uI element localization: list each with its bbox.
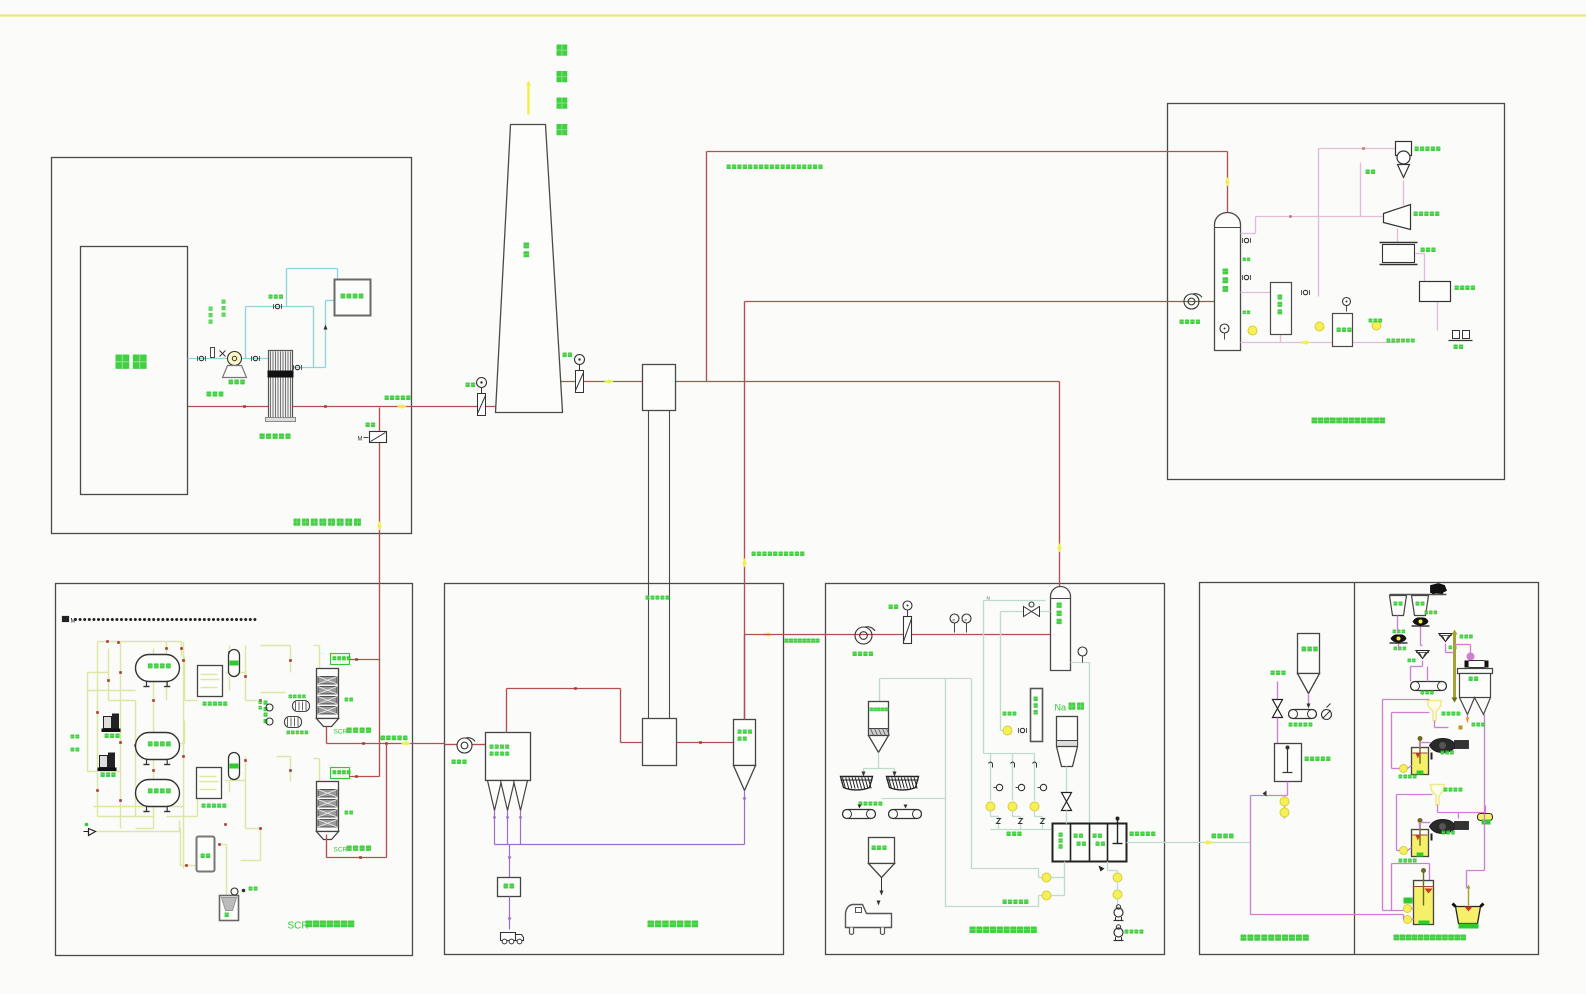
- svg-text:M: M: [358, 437, 363, 443]
- svg-text:P: P: [965, 618, 968, 623]
- svg-text:P: P: [953, 618, 956, 623]
- svg-text:N: N: [987, 596, 990, 601]
- svg-text:SCR: SCR: [334, 729, 348, 736]
- svg-text:Na: Na: [1055, 703, 1067, 713]
- svg-text:SCR: SCR: [288, 921, 309, 932]
- svg-text:SCR: SCR: [334, 847, 348, 854]
- svg-text:M: M: [71, 619, 76, 625]
